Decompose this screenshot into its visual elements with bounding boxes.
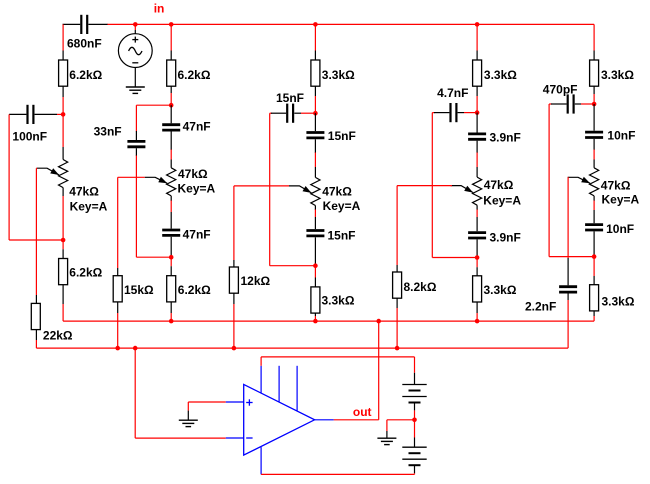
node G junction [475, 110, 480, 115]
wire: output node [334, 419, 379, 421]
resistor R9 12k [229, 267, 238, 293]
wire: top input rail [107, 23, 594, 25]
capacitor C11 3.9nF branch4 lower [468, 231, 486, 234]
svg-text:6.2kΩ: 6.2kΩ [69, 68, 102, 82]
svg-text:470pF: 470pF [543, 83, 578, 97]
svg-text:680nF: 680nF [67, 37, 102, 51]
op-amp pin inverting input [226, 437, 244, 439]
potentiometer P1 47k branch1 [62, 114, 64, 147]
svg-text:3.9nF: 3.9nF [490, 231, 521, 245]
wire: 100nF left bypass down [8, 114, 10, 240]
svg-text:47nF: 47nF [183, 227, 211, 241]
wire: P3 wiper to R9 [234, 185, 289, 187]
wire: P4 wiper to R12 [397, 185, 452, 187]
svg-text:47kΩ: 47kΩ [178, 167, 208, 181]
wire: midpoint to ground [387, 419, 415, 421]
svg-text:Key=A: Key=A [70, 199, 108, 213]
svg-text:6.2kΩ: 6.2kΩ [69, 266, 102, 280]
op-amp pin V+ top [260, 366, 262, 393]
svg-text:out: out [353, 405, 372, 419]
wire: bypass4 down [431, 113, 433, 258]
capacitor C7 15nF branch3 upper [314, 113, 316, 131]
op-amp pin output [315, 419, 334, 421]
svg-text:10nF: 10nF [607, 129, 635, 143]
capacitor C10 3.9nF branch4 upper [476, 113, 478, 133]
svg-text:3.3kΩ: 3.3kΩ [322, 293, 355, 307]
potentiometer P2 47k branch2 [167, 168, 176, 196]
wire: bus output feedback [63, 320, 594, 322]
svg-text:100nF: 100nF [12, 129, 47, 143]
svg-text:2.2nF: 2.2nF [525, 300, 556, 314]
svg-text:10nF: 10nF [606, 222, 634, 236]
svg-text:6.2kΩ: 6.2kΩ [178, 68, 211, 82]
capacitor C9 4.7nF bypass [432, 112, 435, 114]
node I junction [592, 102, 597, 107]
svg-text:47kΩ: 47kΩ [69, 184, 99, 198]
wire: negative supply rail [261, 473, 414, 475]
wire: bypass to node B [9, 239, 63, 241]
capacitor C5 47nF branch2 lower [162, 229, 180, 232]
battery V2 positive supply [414, 373, 416, 385]
wire: bus inverting input [36, 347, 568, 349]
svg-text:47kΩ: 47kΩ [601, 178, 631, 192]
svg-text:Key=A: Key=A [323, 199, 361, 213]
op-amp U1 [244, 384, 315, 455]
svg-text:in: in [154, 2, 165, 16]
svg-text:22kΩ: 22kΩ [43, 329, 73, 343]
resistor R1 6.2k branch1 top [59, 60, 68, 86]
battery V3 negative supply [414, 420, 416, 438]
resistor R4 6.2k branch2 top [167, 60, 176, 86]
wire: positive supply rail [260, 357, 262, 366]
wire: bypass5 down [548, 104, 550, 257]
wire: P5 wiper to C15 [567, 176, 570, 178]
svg-text:3.3kΩ: 3.3kΩ [601, 68, 634, 82]
ground below AC source [126, 86, 145, 88]
ground at battery midpoint [377, 437, 396, 439]
op-amp pin V- bottom [260, 447, 262, 474]
capacitor C3 33nF [136, 104, 171, 106]
op-amp plus input symbol [246, 402, 252, 404]
op-amp minus input symbol [246, 437, 252, 439]
resistor R3 6.2k branch1 bottom [62, 240, 64, 249]
svg-text:3.9nF: 3.9nF [490, 131, 521, 145]
svg-text:15nF: 15nF [328, 229, 356, 243]
capacitor C12 470pF bypass [549, 103, 552, 105]
svg-text:3.3kΩ: 3.3kΩ [602, 295, 635, 309]
svg-text:3.3kΩ: 3.3kΩ [484, 68, 517, 82]
wire: branch2 top [169, 22, 174, 27]
capacitor C15 2.2nF [559, 285, 577, 288]
capacitor C13 10nF branch5 upper [593, 104, 595, 131]
AC source V1 [133, 22, 138, 27]
resistor R10 3.3k branch4 top [473, 60, 482, 86]
potentiometer P4 47k branch4 [473, 177, 482, 205]
resistor R13 3.3k branch5 top [590, 60, 599, 86]
wire: branch5 top corner [593, 24, 595, 50]
wire: 33nF to node D [136, 256, 171, 258]
potentiometer P3 47k branch3 [311, 177, 320, 205]
capacitor C6 15nF bypass [270, 112, 272, 114]
ground at op-amp input [179, 419, 198, 421]
node C junction [169, 103, 174, 108]
op-amp pin top3 [296, 366, 298, 411]
svg-text:Key=A: Key=A [483, 193, 521, 207]
svg-text:4.7nF: 4.7nF [437, 86, 468, 100]
svg-text:3.3kΩ: 3.3kΩ [484, 283, 517, 297]
resistor R2 22k [31, 303, 40, 329]
svg-text:6.2kΩ: 6.2kΩ [178, 283, 211, 297]
resistor R7 3.3k branch3 top [311, 60, 320, 86]
wire: branch3 top [313, 22, 318, 27]
resistor R12 8.2k [393, 272, 402, 298]
node E junction [313, 111, 318, 116]
op-amp pin top2 [278, 366, 280, 402]
svg-text:15kΩ: 15kΩ [124, 283, 154, 297]
svg-text:47kΩ: 47kΩ [322, 184, 352, 198]
capacitor C4 47nF branch2 upper [170, 105, 172, 123]
capacitor C2 100nF [9, 113, 26, 115]
resistor R14 3.3k branch5 bottom [593, 257, 595, 276]
capacitor C14 10nF branch5 lower [585, 223, 603, 226]
wire: R1 to node A [62, 86, 64, 97]
resistor R11 3.3k branch4 bottom [476, 258, 478, 268]
node A junction [61, 112, 66, 117]
wire: P2 wiper to R6 [118, 176, 145, 178]
op-amp pin noninverting input [226, 401, 244, 403]
node F junction [313, 263, 318, 268]
svg-text:Key=A: Key=A [602, 193, 640, 207]
svg-text:3.3kΩ: 3.3kΩ [322, 68, 355, 82]
svg-text:47nF: 47nF [183, 119, 211, 133]
capacitor C1 680nF input coupling [63, 23, 81, 25]
resistor R6 15k [113, 276, 122, 302]
wire: noninverting input to ground [188, 401, 225, 403]
svg-text:47kΩ: 47kΩ [484, 178, 514, 192]
node D junction [169, 255, 174, 260]
wire: P1 wiper to R2 [35, 167, 38, 169]
potentiometer P5 47k branch5 [590, 168, 599, 196]
resistor R8 3.3k branch3 bottom [314, 266, 316, 278]
node B junction [61, 238, 66, 243]
wire: branch4 top [475, 22, 480, 27]
wire: branch1 top corner down [62, 24, 64, 50]
svg-text:Key=A: Key=A [178, 182, 216, 196]
capacitor C8 15nF branch3 lower [306, 229, 324, 232]
node J junction [592, 254, 597, 259]
resistor R5 6.2k branch2 bottom [170, 257, 172, 266]
node H junction [475, 255, 480, 260]
svg-text:12kΩ: 12kΩ [241, 274, 271, 288]
svg-text:15nF: 15nF [328, 129, 356, 143]
wire: inverting input from bus [134, 348, 136, 438]
svg-text:33nF: 33nF [94, 125, 122, 139]
svg-text:8.2kΩ: 8.2kΩ [404, 280, 437, 294]
wire: bypass3 down [269, 113, 271, 266]
node K battery midpoint [412, 418, 417, 423]
svg-text:15nF: 15nF [276, 91, 304, 105]
